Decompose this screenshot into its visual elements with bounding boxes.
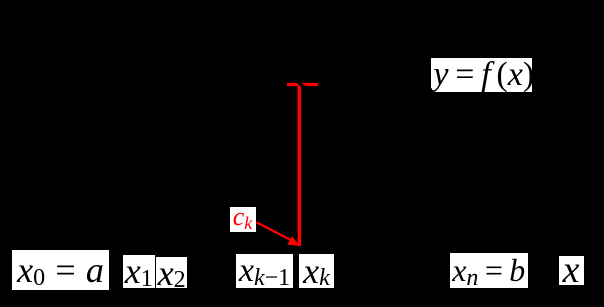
- label c_k (red): [230, 207, 256, 233]
- red arrowhead: [287, 236, 299, 246]
- label x_0 = a: [12, 250, 109, 290]
- label x_n = b: [450, 253, 528, 288]
- red vertical line at c_k: [298, 83, 302, 246]
- label x_2: [156, 257, 187, 288]
- label x (axis): [559, 256, 584, 286]
- label x_1: [123, 255, 156, 289]
- label y=f(x): [431, 58, 533, 92]
- label x_{k-1}: [236, 254, 293, 288]
- label x_k: [299, 254, 334, 288]
- red horizontal dash at f(c_k) on curve: [287, 83, 318, 86]
- black diagonal (curve crossing): [295, 80, 305, 89]
- red arrow shaft from c_k label: [257, 222, 293, 240]
